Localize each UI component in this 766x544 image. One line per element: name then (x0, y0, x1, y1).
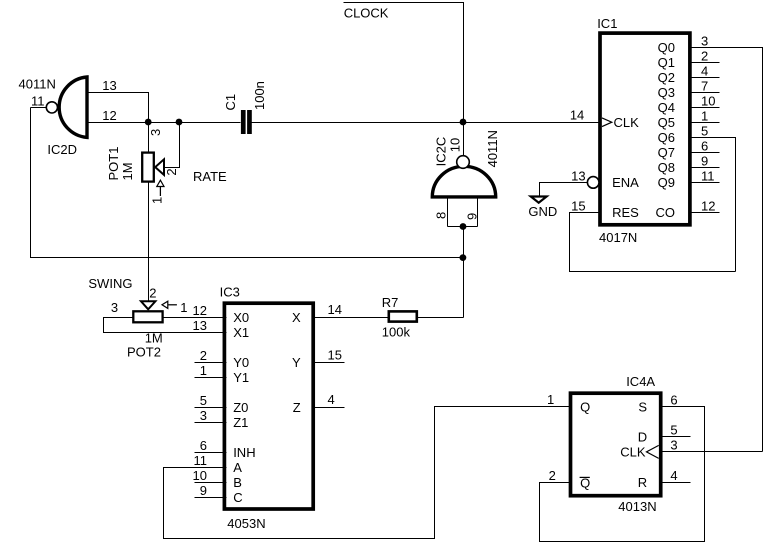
svg-text:2: 2 (701, 48, 708, 63)
svg-text:2: 2 (164, 168, 179, 175)
svg-text:9: 9 (701, 153, 708, 168)
svg-text:1: 1 (180, 300, 187, 315)
svg-text:RES: RES (612, 205, 639, 220)
svg-text:6: 6 (200, 438, 207, 453)
svg-text:3: 3 (701, 33, 708, 48)
svg-text:10: 10 (701, 93, 715, 108)
svg-text:1M: 1M (120, 162, 135, 180)
svg-text:11: 11 (701, 168, 715, 183)
svg-text:100n: 100n (252, 81, 267, 110)
svg-text:1: 1 (701, 108, 708, 123)
svg-text:2: 2 (200, 348, 207, 363)
svg-text:4011N: 4011N (19, 77, 56, 92)
svg-text:5: 5 (200, 393, 207, 408)
svg-text:4: 4 (328, 392, 335, 407)
svg-text:Y1: Y1 (233, 370, 249, 385)
svg-text:X: X (292, 310, 301, 325)
svg-text:GND: GND (528, 204, 557, 219)
svg-text:12: 12 (193, 303, 207, 318)
svg-text:Q1: Q1 (658, 55, 675, 70)
svg-text:11: 11 (31, 94, 45, 109)
svg-text:ENA: ENA (612, 175, 639, 190)
svg-text:1M: 1M (145, 330, 163, 345)
svg-text:Z1: Z1 (233, 415, 248, 430)
svg-text:10: 10 (193, 468, 207, 483)
svg-text:Q5: Q5 (658, 115, 675, 130)
svg-text:13: 13 (571, 169, 585, 184)
svg-text:100k: 100k (382, 324, 411, 339)
svg-text:7: 7 (701, 78, 708, 93)
svg-text:SWING: SWING (88, 276, 132, 291)
svg-text:8: 8 (433, 212, 448, 219)
svg-text:INH: INH (233, 445, 255, 460)
svg-text:13: 13 (193, 318, 207, 333)
svg-text:IC3: IC3 (220, 284, 240, 299)
svg-text:Q: Q (580, 399, 590, 414)
svg-text:6: 6 (701, 138, 708, 153)
svg-text:CLOCK: CLOCK (344, 6, 389, 21)
svg-text:Z: Z (293, 400, 301, 415)
svg-text:11: 11 (194, 453, 208, 468)
svg-text:C1: C1 (223, 94, 238, 111)
svg-text:X1: X1 (233, 325, 249, 340)
svg-text:Q6: Q6 (658, 130, 675, 145)
svg-text:A: A (233, 460, 242, 475)
svg-text:R: R (638, 475, 647, 490)
svg-text:14: 14 (328, 302, 342, 317)
svg-text:4011N: 4011N (485, 130, 500, 167)
svg-text:Q4: Q4 (658, 100, 675, 115)
svg-text:4: 4 (670, 468, 677, 483)
svg-text:IC4A: IC4A (626, 374, 655, 389)
svg-text:Q0: Q0 (658, 40, 675, 55)
svg-text:1: 1 (200, 363, 207, 378)
svg-text:CLK: CLK (620, 445, 646, 460)
svg-text:Z0: Z0 (233, 400, 248, 415)
svg-text:POT1: POT1 (106, 147, 121, 181)
svg-text:4013N: 4013N (618, 499, 656, 514)
svg-text:1: 1 (150, 197, 165, 204)
svg-text:IC2C: IC2C (433, 137, 448, 167)
svg-text:12: 12 (701, 198, 715, 213)
svg-text:10: 10 (448, 138, 463, 152)
svg-text:D: D (638, 430, 647, 445)
svg-text:R7: R7 (382, 295, 399, 310)
svg-text:S: S (638, 399, 647, 414)
svg-text:IC2D: IC2D (47, 142, 77, 157)
svg-text:X0: X0 (233, 310, 249, 325)
svg-text:Y0: Y0 (233, 355, 249, 370)
svg-text:IC1: IC1 (597, 16, 617, 31)
svg-text:3: 3 (200, 408, 207, 423)
svg-text:5: 5 (670, 423, 677, 438)
svg-text:5: 5 (701, 123, 708, 138)
svg-text:Q2: Q2 (658, 70, 675, 85)
svg-text:Q7: Q7 (658, 145, 675, 160)
svg-text:9: 9 (200, 483, 207, 498)
svg-text:Q8: Q8 (658, 160, 675, 175)
svg-text:15: 15 (571, 199, 585, 214)
svg-text:2: 2 (149, 285, 156, 300)
svg-text:9: 9 (465, 213, 480, 220)
svg-text:CLK: CLK (614, 115, 640, 130)
svg-text:C: C (233, 490, 242, 505)
svg-text:B: B (233, 475, 242, 490)
svg-text:CO: CO (656, 205, 676, 220)
svg-text:15: 15 (328, 347, 342, 362)
svg-text:4: 4 (701, 63, 708, 78)
svg-text:4053N: 4053N (227, 516, 265, 531)
svg-text:4017N: 4017N (599, 230, 637, 245)
svg-text:13: 13 (102, 78, 116, 93)
svg-text:3: 3 (148, 129, 163, 136)
svg-text:14: 14 (570, 108, 584, 123)
svg-text:Y: Y (292, 355, 301, 370)
svg-text:6: 6 (670, 392, 677, 407)
svg-text:3: 3 (111, 300, 118, 315)
svg-text:POT2: POT2 (127, 344, 161, 359)
svg-text:Q3: Q3 (658, 85, 675, 100)
svg-text:1: 1 (547, 392, 554, 407)
svg-text:Q9: Q9 (658, 175, 675, 190)
svg-text:3: 3 (670, 438, 677, 453)
svg-text:2: 2 (549, 468, 556, 483)
svg-text:RATE: RATE (193, 169, 227, 184)
svg-text:12: 12 (102, 108, 116, 123)
